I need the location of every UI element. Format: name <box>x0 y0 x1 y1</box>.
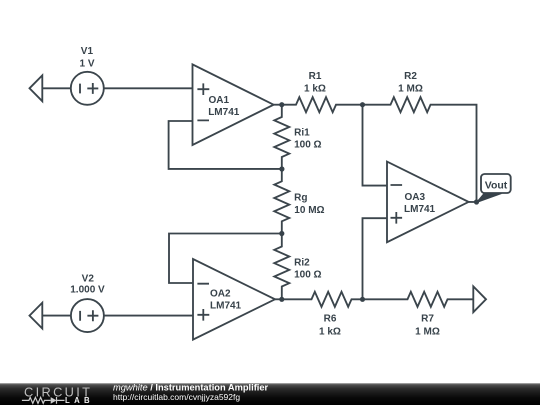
svg-text:1 MΩ: 1 MΩ <box>398 84 423 95</box>
svg-text:1 kΩ: 1 kΩ <box>319 326 341 337</box>
svg-text:Ri1: Ri1 <box>294 128 310 139</box>
svg-text:OA1: OA1 <box>209 95 230 106</box>
svg-text:LM741: LM741 <box>208 107 240 118</box>
svg-text:OA3: OA3 <box>405 192 426 203</box>
svg-text:1 MΩ: 1 MΩ <box>415 326 440 337</box>
svg-text:R6: R6 <box>324 314 337 325</box>
svg-text:V1: V1 <box>81 46 94 57</box>
svg-text:LM741: LM741 <box>404 204 436 215</box>
svg-text:1 kΩ: 1 kΩ <box>304 84 326 95</box>
svg-text:Ri2: Ri2 <box>294 257 310 268</box>
svg-text:http://circuitlab.com/cvnjjyza: http://circuitlab.com/cvnjjyza592fg <box>113 392 240 402</box>
svg-text:1 V: 1 V <box>79 59 94 70</box>
svg-text:100 Ω: 100 Ω <box>294 270 321 281</box>
svg-text:R7: R7 <box>421 314 434 325</box>
svg-text:Rg: Rg <box>294 192 307 203</box>
svg-text:10 MΩ: 10 MΩ <box>294 205 324 216</box>
svg-text:R2: R2 <box>404 71 417 82</box>
svg-text:LM741: LM741 <box>210 301 242 312</box>
svg-text:LAB: LAB <box>65 396 94 405</box>
svg-text:R1: R1 <box>309 71 322 82</box>
svg-text:100 Ω: 100 Ω <box>294 140 321 151</box>
svg-text:Vout: Vout <box>485 179 508 191</box>
svg-text:OA2: OA2 <box>210 289 231 300</box>
svg-text:1.000 V: 1.000 V <box>70 285 105 296</box>
svg-text:V2: V2 <box>82 273 95 284</box>
